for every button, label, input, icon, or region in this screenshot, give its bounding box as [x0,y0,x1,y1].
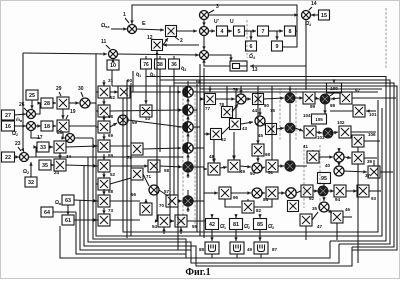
multiplier block 97 [340,92,352,104]
svg-text:95: 95 [321,176,327,182]
wire into 23 top [21,148,24,152]
svg-text:77: 77 [205,106,211,111]
wire 73 row [110,219,140,221]
block 9 [272,41,283,51]
wire 97 to 98 [331,97,340,100]
wire into 49 top [232,150,235,160]
block 33 [37,142,49,152]
block 8 [285,26,296,36]
wire 16 to mult17 [15,124,27,127]
svg-text:7: 7 [262,29,265,35]
wire 99 to 98 [315,97,319,100]
wire below summer S3 [186,133,189,138]
multiplier block 60 [118,86,130,98]
wire 71 down [143,174,149,186]
wire 28 to 29 [52,101,56,104]
multiplier block 51 [266,160,278,172]
svg-text:15: 15 [321,13,327,19]
wire into multiplier block 52 top [102,172,105,178]
svg-text:11: 11 [101,39,107,45]
multiplier block 72 [131,143,143,155]
multiplier block 58b [148,160,160,172]
wire bus to multiplier block 31 [96,91,98,93]
wire 60 to summer [130,90,181,93]
wire up into 54 [162,228,165,235]
svg-text:44: 44 [252,108,258,113]
multiplier block 71 [131,168,143,180]
stub 77 [200,97,204,100]
multiplier block 92 [301,185,313,197]
svg-text:U: U [230,19,234,25]
multiplier block 48 [208,163,220,175]
block 28 [41,98,53,108]
wire input to summer 1 [111,27,127,30]
wire 55 right [187,220,205,222]
wire output block down [234,230,237,242]
svg-text:16: 16 [5,124,11,130]
svg-text:82: 82 [256,208,262,213]
multiplier block 31 [98,86,110,98]
svg-text:Фиг.1: Фиг.1 [185,267,210,278]
stub 41 top [312,150,314,151]
feedback loop 4 [88,157,339,263]
vertical filler wire [132,71,134,92]
svg-text:30: 30 [78,86,84,92]
svg-text:25: 25 [29,93,35,99]
wire into multiplier block 73 top [102,208,105,214]
wire stub into summer [178,166,181,168]
wire 5 to 7 [245,29,256,32]
multiplier block 45 [266,124,277,135]
svg-text:104: 104 [303,113,311,118]
bus wire 5 [200,88,382,90]
svg-text:70: 70 [159,203,165,208]
svg-text:61: 61 [65,218,71,224]
svg-text:54: 54 [152,224,158,229]
svg-text:38: 38 [157,62,163,68]
wire 48 to 49 [220,166,227,169]
block 64 [41,207,53,217]
wire 93s to 94 [328,189,334,192]
multiplier block 47 [300,214,312,226]
wire 56b up [144,199,147,203]
wire 58 to mult 59 [110,123,117,127]
bus loop 4 [112,86,397,250]
wire into 82 [247,199,249,201]
multiplier 40 [334,166,344,176]
svg-text:40: 40 [325,163,331,168]
wire mult20 to bus [74,137,93,139]
bus q1 loop [146,69,386,241]
wire 83b right [296,191,301,193]
wire 34 output right [66,144,97,147]
block 61 [62,215,74,225]
feedback loop 5 [84,165,352,266]
wire 25 to mult26 [30,100,33,109]
vert into 78 [226,86,228,106]
wire drop to block 6 [249,31,252,40]
wire 94 to 93 [346,189,357,192]
bus q3 loop [174,69,394,247]
block 100 [327,83,342,93]
wire 33 to 34 [49,145,53,148]
block 27 [2,110,15,120]
svg-text:1: 1 [123,12,126,18]
svg-text:2: 2 [180,38,183,44]
svg-text:71: 71 [146,174,152,179]
vert into 79 [239,86,242,94]
multiplier block 83 [266,187,278,199]
wire 54 to 55 [170,219,174,222]
svg-text:93: 93 [371,196,377,201]
svg-text:U': U' [214,19,219,25]
multiplier 50 [252,163,262,173]
feedback loop 6 [80,200,191,250]
mid bus 5 [177,86,179,250]
wire below summer S2 [186,116,189,121]
block 10 [107,60,119,70]
wire into block38 [159,56,161,59]
wire stub into summer [178,126,181,128]
dashed boundary top right [385,8,387,68]
svg-text:4: 4 [221,29,224,35]
wire 64 right [53,211,76,213]
multiplier block 68 [98,195,110,207]
mid bus 4 [169,86,171,215]
wire summer80b to 99 [295,96,303,99]
multiplier 59 [118,115,128,125]
wire 19 to bus [69,125,96,127]
vert into 49 [232,132,235,159]
multiplier block 41 [307,151,319,163]
wire 68b to 50 [256,156,259,162]
summing junction S3 [183,122,193,132]
multiplier block 49 [228,160,240,172]
summing junction 103b [323,128,333,138]
svg-text:23: 23 [15,141,21,147]
svg-text:E: E [142,21,146,27]
multiplier 3 [200,11,209,20]
wire 45 to summer [276,127,284,130]
svg-text:63: 63 [65,198,71,204]
svg-text:78: 78 [219,102,225,107]
svg-text:36: 36 [171,62,177,68]
block 4 [217,26,228,36]
svg-text:87: 87 [272,247,278,252]
multiplier block 32a [98,105,110,117]
wire into multiplier block 59a top [102,154,105,160]
feedback loop 3 [93,138,330,258]
svg-text:62: 62 [221,137,227,142]
svg-text:41: 41 [303,144,309,149]
mid bus 7 [173,83,175,195]
multiplier block 52 [98,178,110,190]
block 42 [206,219,219,230]
wire summer S4 output [193,147,204,149]
wire mult40 right [344,170,367,173]
multiplier block 68b [252,144,264,156]
summing junction 51b [285,161,295,171]
block 16 [2,121,15,131]
wire into 62 [204,132,210,135]
wire output block down [210,230,213,242]
block 76 [141,59,152,69]
wire q1 drop to 53 [144,76,147,104]
svg-text:98: 98 [330,103,336,108]
wire 4 to 5 [228,29,232,32]
stub 99 [302,97,304,99]
wire 29 to mult30 [69,101,79,104]
wire stub into summer [178,147,181,149]
summing junction 14 [302,11,311,20]
wire into multiplier block 69 top [102,134,105,140]
multiplier block 99 [303,92,315,104]
wire into 44 top [258,108,261,116]
svg-text:33: 33 [40,145,46,151]
wire 37 up [373,160,375,166]
block 105 [312,114,327,124]
wire to block 4 [208,29,215,32]
summing junction 23 [20,153,29,162]
svg-text:96: 96 [233,195,239,200]
wire output block down [258,230,261,242]
wire into multiplier block 32a top [102,99,105,105]
wire 37 right [380,171,393,173]
wire 47 to 45 [312,212,318,220]
wire bus to multiplier block 52 [96,183,98,185]
wire into summer S6 top [187,190,189,196]
wire integrator down [260,254,262,258]
wire down to mult junction [202,35,205,50]
dashed boundary right of summer column [194,86,196,226]
summing junction 45b [285,123,295,133]
summing junction 93s [318,186,328,196]
block 25 [26,90,38,100]
svg-text:85: 85 [257,222,263,228]
svg-text:43: 43 [242,126,248,131]
wire block13 to lower junction [202,59,230,66]
svg-text:6: 6 [250,44,253,50]
multiplier block 39 [352,152,364,164]
wire q2 drop down [159,80,161,152]
summing junction S6 [183,196,193,206]
wire integrator down [211,254,213,258]
right drop wire [357,164,359,263]
block 36 [169,59,180,69]
block 15 [319,10,330,20]
multiplier block 77 [205,94,216,105]
svg-text:72: 72 [127,155,133,160]
wire 23 row to bus [36,156,183,158]
wire into output block [210,214,213,218]
multiplier block 106 [352,135,364,147]
block 63 [62,195,74,205]
svg-text:81: 81 [233,222,239,228]
wire 102 right [351,131,376,133]
svg-text:99: 99 [310,104,316,109]
wire drop to block 9 [275,31,278,40]
center bus 1 [196,84,198,232]
svg-text:22: 22 [5,155,11,161]
wire 63 to 61 [66,205,69,215]
vert summer col [289,104,291,122]
multiplier block 101 [353,105,365,117]
wire 46 down to loop [336,223,338,240]
wire bus to 101 [366,109,376,112]
wire 44 to 45 [263,124,266,126]
svg-text:34: 34 [66,154,72,159]
multiplier block 78 [222,107,233,118]
svg-text:59: 59 [108,153,114,158]
svg-text:80: 80 [264,103,270,108]
wire into summer S1 top [187,81,189,87]
wire 84 to 83 [261,191,265,194]
summing junction S2 [183,105,193,115]
wire summer1 to block 2 [137,28,164,31]
wire down to mult40 [337,162,340,166]
wire 100 to 98 [330,93,334,96]
svg-text:69: 69 [108,133,114,138]
svg-text:3: 3 [216,4,219,10]
multiplier block 73 [98,214,110,226]
vert into 51 [271,86,273,160]
wire summer S3 output [193,126,200,128]
svg-text:88: 88 [199,247,205,252]
multiplier junction U' [200,27,209,36]
summing junction S5 [183,162,193,172]
wire 77 to mult79 [216,97,235,100]
wire 26 up to 28 [35,101,41,114]
wire 83 to summer [278,191,285,194]
wire below summer S4 [186,154,189,159]
integrator block 88 [205,242,219,254]
block 18 [41,121,53,131]
wire long feedback to mult 11 [23,52,107,55]
svg-text:92: 92 [309,196,315,201]
svg-text:49: 49 [247,247,253,252]
svg-text:51: 51 [268,170,274,175]
svg-text:76: 76 [143,62,149,68]
wire into summer S4 top [187,137,189,143]
multiplier 17 [27,122,36,131]
vert 258 [257,86,259,144]
wire 27 to 26 [15,113,27,116]
svg-text:31: 31 [108,78,114,83]
wire summer S1 output right [193,91,378,93]
svg-text:73: 73 [108,208,114,213]
multiplier block 2 [166,26,177,37]
multiplier block 24 [54,159,66,171]
multiplier block 94 [334,185,346,197]
multiplier 26 [27,110,36,119]
wire 29 down to 19 [61,109,64,119]
svg-text:94: 94 [335,197,341,202]
multiplier 57 [149,185,159,195]
wire into block12 bottom [155,51,158,60]
wire junction to block13 top [208,55,233,61]
block 95 [318,173,331,184]
summing junction 45 [319,202,329,212]
dashed boundary left of summer column [182,86,184,226]
wire up into 55 [179,228,182,235]
svg-text:35: 35 [312,206,318,211]
wire into block76 [145,56,147,59]
svg-text:27: 27 [5,113,11,119]
wire 62 to 43 [222,127,229,134]
svg-text:19: 19 [70,109,76,115]
wire mult3 down [202,19,205,26]
wire 92 to 93s [313,189,318,192]
wire 80 to summer [263,97,284,100]
wire 41 to mult40a [319,155,333,158]
stub 103 [303,131,304,133]
wire mult17 down [31,131,40,138]
wire into 100 [332,79,335,83]
wire 32 up [29,162,32,177]
feedback loop right 2 [96,54,382,236]
wire block12 to block2 [163,38,168,45]
wire left feedback down to summer 23 [22,53,24,150]
wire 69 row [110,145,130,147]
block 32 [25,177,37,187]
wire into output block [258,214,261,218]
multiplier block 58 [98,121,110,133]
svg-text:18: 18 [44,124,50,130]
wire into 45 [322,197,325,201]
wire 32a row to summer [110,108,182,111]
wire summer14 down to block 13 [250,19,306,68]
wire to 96 [204,191,218,194]
multiplier block 56b [140,203,152,215]
svg-text:39: 39 [367,159,373,164]
wire 50 to 51 [261,167,265,170]
svg-text:79: 79 [233,87,239,92]
wire 106 down [357,147,359,152]
svg-text:9: 9 [276,44,279,50]
svg-text:100: 100 [330,86,338,91]
feedback loop inner right [123,98,378,232]
wire block15 into summer14 [311,13,318,16]
integrator block 87 [254,242,268,254]
multiplier block 93 [357,185,369,197]
wire into mult40a top [337,148,340,152]
feedback loop 7 [76,212,186,254]
wire 35 to 24 [50,163,54,166]
wire mult3 to summer 14 [208,13,298,16]
wire summer S6 output [193,200,204,202]
wire into multiplier block 68 top [102,189,105,195]
mid bus 3 [130,83,132,236]
wire to 102 [333,131,338,134]
wire summer S2 output [193,109,197,111]
svg-text:102: 102 [337,120,345,125]
wire feedback into block 12 [163,43,199,46]
wire 106 right [364,140,380,142]
wire 47 down [305,226,307,240]
wire 97 right [352,97,396,99]
multiplier block 69 [98,140,110,152]
block 5 [234,26,245,36]
wire below summer S5 [186,173,189,178]
outer bottom loop [60,226,186,258]
svg-text:52: 52 [110,95,116,100]
wire 34 to 24 vertical [58,153,61,159]
multiplier 20 [66,134,75,143]
wire omega4 down [305,66,307,90]
multiplier block 59a [98,160,110,172]
wire 39 right [364,157,377,159]
multiplier block 53 [140,105,152,117]
